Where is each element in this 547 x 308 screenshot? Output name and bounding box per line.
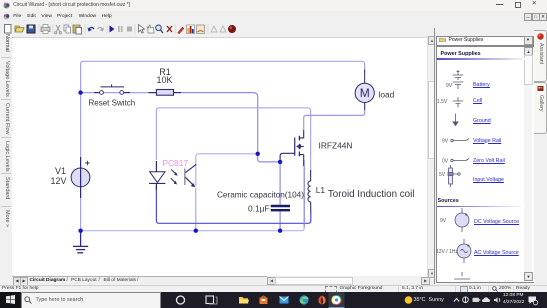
mail [280, 296, 289, 303]
task view [206, 296, 214, 304]
meter [197, 25, 205, 34]
dropdown [436, 36, 534, 46]
chrome active highlight [329, 292, 345, 308]
svg-text:10K: 10K [156, 75, 172, 85]
delete X [167, 26, 172, 32]
junction node dot2 (gate) [278, 160, 282, 164]
inductor L1 [308, 170, 311, 214]
optocoupler PC817 label [163, 158, 189, 168]
wire: phototransistor collector to node dot1 [196, 154, 256, 186]
weather sun [405, 296, 413, 304]
svg-text:V1: V1 [55, 166, 66, 176]
ground icon [455, 114, 457, 123]
wire: gate node down to capacitor and bottom [279, 162, 281, 231]
gallery links [473, 82, 490, 88]
copy [64, 25, 69, 31]
junction node A (switch tap) [78, 90, 82, 94]
edge [299, 295, 308, 304]
open [15, 26, 24, 32]
wire: LED anode rail to L1 top [156, 108, 310, 172]
resistor R1 [149, 90, 182, 96]
gallery panel [436, 46, 535, 283]
capacitor C1 0.1uF [271, 206, 290, 210]
battery V1 [71, 157, 90, 198]
svg-text:9V: 9V [440, 218, 447, 224]
undo [89, 28, 95, 30]
play [110, 26, 115, 33]
AC source icon [463, 239, 465, 263]
action center [529, 296, 537, 304]
graph bars [187, 25, 195, 34]
paste [73, 25, 80, 33]
label load [379, 90, 395, 100]
cursor [139, 25, 145, 34]
zoom [156, 25, 162, 31]
probe pen [178, 27, 185, 34]
redo [98, 28, 104, 30]
wire: emitter down to bottom rail [195, 188, 197, 231]
tray headset [463, 297, 469, 303]
svg-text:Reset Switch: Reset Switch [89, 98, 136, 107]
label IRFZ44N [319, 141, 353, 151]
canvas vertical scrollbar [427, 36, 436, 276]
partial battery at bottom [454, 272, 470, 279]
svg-text:0V: 0V [442, 159, 449, 165]
wire: switch branch from node A to R1 [82, 93, 258, 152]
cell icon [453, 97, 464, 108]
svg-text:5V: 5V [439, 172, 446, 178]
taskbar icons [160, 292, 547, 308]
store bag [260, 297, 268, 304]
svg-text:Ceramic capaciton(104): Ceramic capaciton(104) [217, 190, 304, 199]
svg-text:12V: 12V [50, 176, 66, 186]
label Toroid Induction coil [328, 189, 415, 200]
wire: dot1 jog to gate node dot2 [258, 154, 280, 162]
tray cloud [482, 297, 490, 302]
orange app [317, 295, 326, 304]
label R1 10K [156, 67, 172, 85]
search box [21, 292, 161, 308]
ground [73, 231, 88, 253]
print [41, 27, 50, 32]
junction node cap-bottom [278, 229, 282, 233]
opto LED [149, 161, 165, 190]
zero volt rail icon [453, 159, 469, 161]
label Ceramic capaciton(104) [217, 190, 304, 199]
canvas horizontal scrollbar [267, 277, 428, 284]
opto phototransistor [185, 164, 196, 187]
hand [147, 25, 154, 33]
opto light arrows [171, 170, 178, 185]
svg-text:9V: 9V [446, 83, 453, 89]
gallery scrollbar [524, 47, 532, 280]
DC source icon [461, 208, 463, 232]
label 0.1uF [248, 204, 270, 214]
tray chevron [454, 298, 459, 301]
new [5, 25, 12, 34]
voltage rail icon [453, 139, 469, 141]
svg-text:IRFZ44N: IRFZ44N [319, 141, 353, 151]
save [27, 25, 35, 33]
label V1 12V [50, 166, 66, 186]
wire: outer loop top (V+ rail) [81, 61, 365, 228]
GALLERY CONTENT [441, 51, 481, 57]
tray speaker [494, 297, 498, 303]
small value labels [436, 83, 458, 255]
wire: bottom ground rail [81, 160, 305, 231]
svg-text:12V / 1Hz: 12V / 1Hz [436, 249, 458, 255]
svg-text:9V: 9V [442, 139, 449, 145]
cortana [177, 296, 185, 304]
MOSFET Q1 IRFZ44N [280, 130, 304, 227]
cut [56, 25, 60, 32]
start [0, 292, 20, 308]
svg-text:0.1µF: 0.1µF [248, 204, 270, 214]
svg-text:Toroid Induction coil: Toroid Induction coil [328, 189, 415, 200]
tray battery [473, 297, 480, 301]
label Reset Switch [89, 98, 136, 107]
wire: LED cathode to L1 bottom (highlighted net) [156, 186, 310, 223]
wire: motor to MOSFET drain [304, 102, 365, 130]
svg-text:M: M [360, 86, 370, 100]
red round [228, 25, 236, 33]
label L1 [316, 185, 326, 195]
junction node dot1 (R1/collector) [256, 152, 260, 156]
svg-text:L1: L1 [316, 185, 326, 195]
svg-text:load: load [379, 90, 395, 100]
motor M (load) [355, 70, 374, 111]
pause [118, 26, 120, 32]
grayed 1 [211, 26, 217, 32]
junction node emitter-bottom [194, 229, 198, 233]
grayed 2 [220, 26, 226, 32]
folder [239, 297, 248, 304]
stop [127, 27, 132, 32]
MDI window buttons [524, 13, 532, 21]
battery icon [453, 70, 464, 89]
svg-text:PC817: PC817 [163, 158, 189, 168]
svg-text:1.5V: 1.5V [437, 99, 448, 105]
input voltage icon [449, 168, 453, 184]
junction node ground-left [78, 229, 82, 233]
push switch: Reset Switch [94, 84, 130, 94]
